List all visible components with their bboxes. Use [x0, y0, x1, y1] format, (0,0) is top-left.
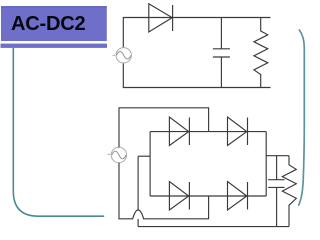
wire: bridge left side	[149, 132, 151, 196]
title underline strip	[1, 44, 108, 48]
resistor R1	[254, 18, 268, 88]
teal right decorative curve	[299, 30, 305, 205]
wire: V2 bottom to bridge bottom midpoint (hump over left-node wire)	[119, 163, 209, 219]
capacitor C2	[276, 156, 278, 180]
diode D3 (top-right)	[228, 117, 247, 146]
diode D1	[149, 4, 172, 32]
resistor R2	[282, 156, 296, 227]
capacitor C1	[220, 18, 222, 49]
wire: V2 top to bridge top midpoint	[119, 108, 209, 147]
V2 polarity tick	[108, 153, 111, 155]
wire: bottom rail circuit 1	[123, 63, 270, 87]
diode D5 (bottom-right)	[228, 182, 247, 211]
wire: bridge bottom rail	[150, 195, 266, 197]
svg-text:AC-DC2: AC-DC2	[11, 13, 85, 35]
V1 polarity tick	[113, 54, 115, 56]
diode D2 (top-left)	[169, 117, 188, 146]
wire: left node stub	[138, 155, 150, 157]
wire: left node vertical down (broken at hump)	[137, 156, 139, 210]
wire: bridge top rail	[150, 131, 266, 133]
AC source V1	[116, 48, 131, 63]
wire: bridge right side	[265, 132, 267, 196]
wire: output top (bridge right to load)	[266, 155, 289, 157]
AC source V2	[111, 147, 126, 162]
title bar AC-DC2	[1, 6, 107, 41]
diode D4 (bottom-left)	[169, 182, 188, 211]
wire: top rail circuit 1	[123, 18, 270, 48]
wire: output bottom rail	[138, 226, 289, 228]
teal left decorative line	[13, 48, 103, 216]
